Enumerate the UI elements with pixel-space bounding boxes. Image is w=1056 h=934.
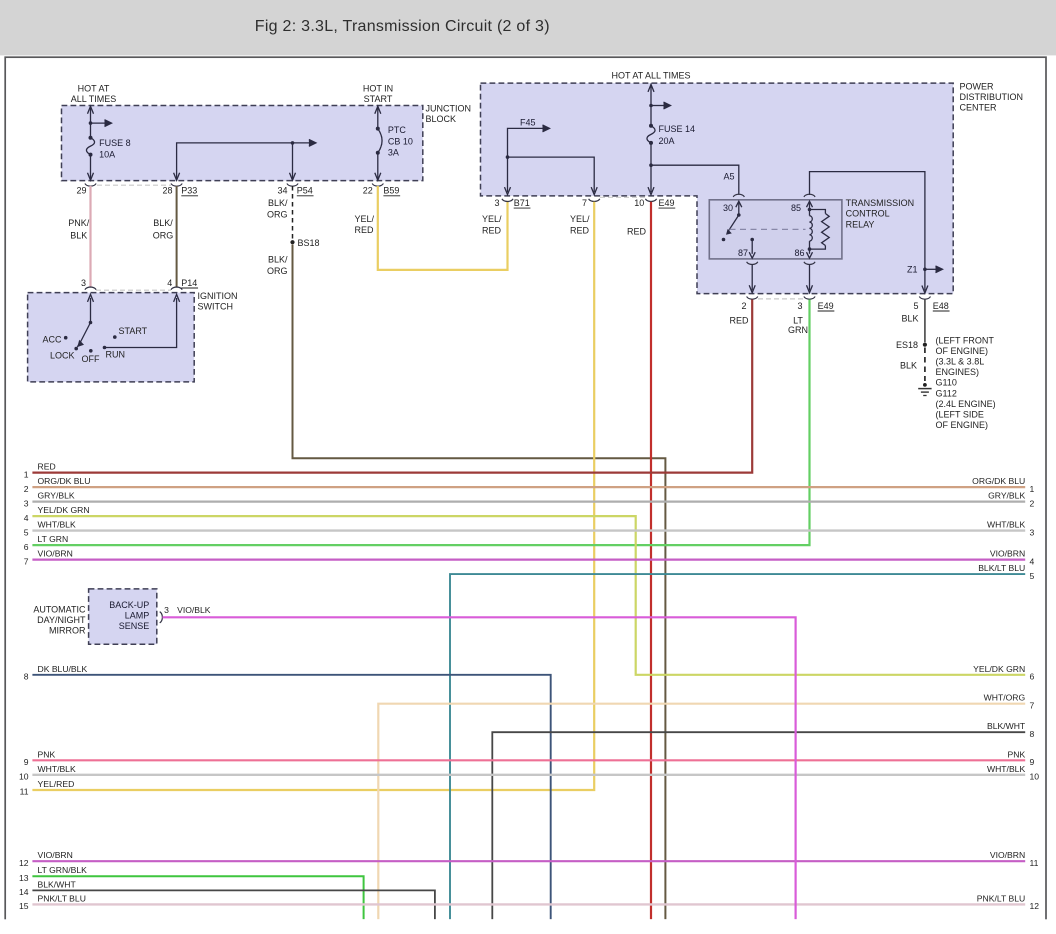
connector 3 (ignition) <box>85 287 96 290</box>
wire RED pin10 down <box>650 202 652 920</box>
svg-text:START: START <box>119 326 148 336</box>
bottom clip mask <box>0 919 1056 934</box>
svg-text:WHT/ORG: WHT/ORG <box>984 693 1026 703</box>
svg-text:28: 28 <box>162 186 172 196</box>
svg-text:YEL/DK GRN: YEL/DK GRN <box>38 505 90 515</box>
svg-text:(LEFT SIDE: (LEFT SIDE <box>936 409 984 419</box>
svg-text:29: 29 <box>76 186 86 196</box>
wire BLK connector5 to splice ES18 <box>924 300 926 343</box>
contact START dot <box>113 335 117 339</box>
wire RUN to terminal 4 <box>105 298 177 348</box>
wire BLK/ORG dashed P54 to splice BS18 <box>292 186 294 240</box>
ignition switch lever <box>80 323 90 343</box>
wire DK BLU/BLK (left 8) <box>32 675 550 920</box>
svg-text:Z1: Z1 <box>907 264 918 274</box>
svg-text:RED: RED <box>729 316 749 326</box>
wire BLK dashed to ground <box>924 348 926 382</box>
fuse F14 feed <box>650 84 652 125</box>
svg-text:RED: RED <box>355 225 375 235</box>
svg-text:3: 3 <box>24 498 29 508</box>
connector 3 (back-up lamp sense) <box>160 612 163 623</box>
relay pin86 wire <box>809 249 811 254</box>
wire RED connector2 to row1 <box>32 300 752 473</box>
connector 34 P54 <box>287 184 298 187</box>
ground G110/G112 <box>923 383 927 387</box>
svg-text:E48: E48 <box>933 301 949 311</box>
svg-text:8: 8 <box>1030 729 1035 739</box>
svg-text:2: 2 <box>1030 498 1035 508</box>
splice ES18 <box>923 343 927 347</box>
relay coil bottom node <box>808 247 812 251</box>
svg-text:3: 3 <box>164 605 169 615</box>
hidden edge dashes <box>97 184 171 186</box>
wire VIO/BLK to bottom <box>162 617 795 919</box>
fuse F8 (FUSE 8 10A) <box>86 138 94 155</box>
svg-text:2: 2 <box>24 484 29 494</box>
wire YEL/DK GRN (left 4 to right 6) <box>32 516 1025 675</box>
svg-text:VIO/BRN: VIO/BRN <box>38 850 73 860</box>
svg-text:ES18: ES18 <box>896 340 918 350</box>
wire BLK/LT BLU (right 5) <box>450 574 1025 919</box>
svg-text:AUTOMATIC: AUTOMATIC <box>33 604 86 614</box>
svg-text:3: 3 <box>797 301 802 311</box>
node fuse14 top branch <box>649 104 653 108</box>
wire LT GRN connector3 to row6 <box>32 300 809 546</box>
wire WHT/ORG (right 7) <box>378 704 1025 920</box>
contact LOCK dot <box>74 347 78 351</box>
svg-text:IGNITION: IGNITION <box>198 291 238 301</box>
svg-text:A5: A5 <box>723 172 734 182</box>
svg-text:12: 12 <box>19 858 29 868</box>
svg-text:FUSE 14: FUSE 14 <box>659 124 696 134</box>
svg-text:15: 15 <box>19 901 29 911</box>
connector 7 <box>589 199 600 202</box>
circuit breaker PTC CB10 feed <box>377 106 379 128</box>
connector 4 P14 <box>171 287 182 290</box>
svg-text:10: 10 <box>1030 772 1040 782</box>
svg-text:11: 11 <box>20 787 29 797</box>
svg-text:5: 5 <box>913 301 918 311</box>
svg-text:YEL/DK GRN: YEL/DK GRN <box>973 664 1025 674</box>
svg-text:BLK: BLK <box>900 360 917 370</box>
svg-text:P33: P33 <box>181 186 197 196</box>
svg-text:10: 10 <box>19 772 29 782</box>
svg-text:BLK/: BLK/ <box>153 218 173 228</box>
relay coil pin85 stem <box>809 203 811 216</box>
contact ACC dot <box>64 336 68 340</box>
svg-text:1: 1 <box>1030 484 1035 494</box>
svg-text:VIO/BRN: VIO/BRN <box>990 549 1025 559</box>
svg-text:(LEFT FRONT: (LEFT FRONT <box>936 336 995 346</box>
svg-text:9: 9 <box>24 757 29 767</box>
svg-text:E49: E49 <box>659 198 675 208</box>
svg-text:P54: P54 <box>297 186 313 196</box>
svg-text:GRY/BLK: GRY/BLK <box>38 491 75 501</box>
wire WHT/BLK (left 10) <box>32 774 1025 776</box>
svg-text:FUSE 8: FUSE 8 <box>99 138 131 148</box>
relay resistor (parallel) <box>810 210 826 214</box>
junction block box <box>62 106 423 181</box>
svg-text:PNK: PNK <box>38 749 56 759</box>
svg-text:ORG: ORG <box>153 231 174 241</box>
svg-text:CB 10: CB 10 <box>388 136 413 146</box>
connector relay pin30 <box>733 194 744 197</box>
svg-text:4: 4 <box>24 513 29 523</box>
svg-text:PNK/LT BLU: PNK/LT BLU <box>977 893 1025 903</box>
wire fuse8 to terminal 29 <box>90 155 92 180</box>
svg-text:7: 7 <box>1030 700 1035 710</box>
svg-text:HOT IN: HOT IN <box>363 84 393 94</box>
svg-text:BLK/WHT: BLK/WHT <box>38 879 77 889</box>
svg-text:BS18: BS18 <box>298 238 320 248</box>
svg-text:10A: 10A <box>99 149 115 159</box>
connector 28 P33 <box>171 184 182 187</box>
svg-text:HOT AT ALL TIMES: HOT AT ALL TIMES <box>611 71 690 81</box>
svg-text:DAY/NIGHT: DAY/NIGHT <box>37 615 86 625</box>
svg-text:BLK: BLK <box>901 313 918 323</box>
svg-text:2: 2 <box>741 301 746 311</box>
svg-text:ORG: ORG <box>267 210 288 220</box>
relay switch lever <box>729 215 739 231</box>
back-up lamp sense box <box>89 589 157 644</box>
svg-text:SWITCH: SWITCH <box>198 301 234 311</box>
node Z1 <box>923 268 927 272</box>
svg-text:(2.4L ENGINE): (2.4L ENGINE) <box>936 399 996 409</box>
svg-text:RED: RED <box>570 226 590 236</box>
svg-text:7: 7 <box>582 198 587 208</box>
svg-text:ALL TIMES: ALL TIMES <box>71 94 117 104</box>
svg-text:CONTROL: CONTROL <box>846 209 890 219</box>
hidden edge dashes under PDC <box>758 298 804 300</box>
connector 2 (PDC bottom) <box>747 297 758 300</box>
svg-text:3: 3 <box>1030 527 1035 537</box>
relay pin30 stem <box>738 203 740 216</box>
svg-text:RELAY: RELAY <box>846 219 875 229</box>
wire VIO/BRN (left 12) <box>32 860 1025 862</box>
svg-text:WHT/BLK: WHT/BLK <box>987 520 1025 530</box>
svg-text:3A: 3A <box>388 147 399 157</box>
svg-text:12: 12 <box>1030 901 1040 911</box>
svg-text:MIRROR: MIRROR <box>49 626 86 636</box>
svg-text:B59: B59 <box>383 186 399 196</box>
connector 29 <box>85 184 96 187</box>
svg-text:85: 85 <box>791 203 801 213</box>
svg-text:START: START <box>364 94 393 104</box>
wire PNK/LT BLU (left 15) <box>32 903 1025 905</box>
svg-text:ORG: ORG <box>267 266 288 276</box>
hidden edge dashes (ignition) <box>96 289 171 291</box>
wire relay pin85 to Z1 <box>810 172 925 291</box>
svg-text:BLK/: BLK/ <box>268 198 288 208</box>
svg-text:11: 11 <box>1030 858 1039 868</box>
wire CB10 to terminal 22 <box>377 153 379 180</box>
wire GRY/BLK (left 3) <box>32 501 1025 503</box>
svg-text:RUN: RUN <box>106 350 126 360</box>
svg-text:5: 5 <box>1030 571 1035 581</box>
svg-text:ENGINES): ENGINES) <box>936 367 980 377</box>
svg-text:P14: P14 <box>181 278 197 288</box>
node A5 branch <box>649 163 653 167</box>
svg-text:BLOCK: BLOCK <box>426 114 457 124</box>
fuse F8 feed wire <box>90 106 92 137</box>
relay actuator dashed link <box>730 228 806 230</box>
relay pin87 wire <box>750 238 754 242</box>
contact OFF dot <box>89 349 93 353</box>
wire junction-block internal branch <box>177 143 312 180</box>
svg-text:POWER: POWER <box>960 81 995 91</box>
wire ORG/DK BLU (left 2) <box>32 486 1025 488</box>
wire YEL/RED B59 to B71 <box>378 186 508 270</box>
wire BLK/ORG terminal28 to ignition 4 <box>176 186 178 287</box>
svg-text:3: 3 <box>81 278 86 288</box>
svg-text:GRN: GRN <box>788 325 808 335</box>
svg-text:Fig 2: 3.3L, Transmission Circ: Fig 2: 3.3L, Transmission Circuit (2 of … <box>255 18 550 35</box>
svg-text:9: 9 <box>1030 757 1035 767</box>
svg-text:G110: G110 <box>936 378 957 388</box>
svg-text:OFF: OFF <box>82 354 100 364</box>
svg-text:DK BLU/BLK: DK BLU/BLK <box>38 664 88 674</box>
splice BS18 <box>290 240 294 244</box>
svg-text:7: 7 <box>24 556 29 566</box>
wire fuse14 to pin 10 <box>650 143 652 192</box>
svg-text:4: 4 <box>1030 556 1035 566</box>
svg-text:VIO/BRN: VIO/BRN <box>38 549 73 559</box>
svg-text:LT GRN/BLK: LT GRN/BLK <box>38 865 88 875</box>
wire VIO/BRN (left 7) <box>32 558 1025 560</box>
svg-text:CENTER: CENTER <box>960 103 998 113</box>
connector 3 B71 <box>502 199 513 202</box>
svg-text:F45: F45 <box>520 118 536 128</box>
svg-text:YEL/: YEL/ <box>355 214 375 224</box>
wire BLK/WHT (left 14) <box>32 890 435 919</box>
connector 3 E49 (PDC bottom) <box>804 297 815 300</box>
svg-text:6: 6 <box>1030 672 1035 682</box>
svg-text:10: 10 <box>634 198 644 208</box>
svg-text:5: 5 <box>24 527 29 537</box>
wire to relay pin 30 (A5) <box>651 165 739 195</box>
connector 10 E49 <box>645 199 656 202</box>
wire F45 to pin 7 <box>508 157 595 192</box>
svg-text:WHT/BLK: WHT/BLK <box>987 764 1025 774</box>
svg-text:20A: 20A <box>659 136 675 146</box>
relay contact 87 dot <box>722 238 726 242</box>
svg-text:WHT/BLK: WHT/BLK <box>38 764 76 774</box>
svg-text:SENSE: SENSE <box>119 621 150 631</box>
svg-text:BLK/: BLK/ <box>268 255 288 265</box>
wire BLK/ORG splice BS18 down and right <box>293 245 666 920</box>
title bar <box>0 0 1056 55</box>
svg-text:B71: B71 <box>514 198 530 208</box>
connector relay pin87 bottom <box>747 262 758 265</box>
svg-text:22: 22 <box>363 186 373 196</box>
svg-text:VIO/BRN: VIO/BRN <box>990 850 1025 860</box>
svg-text:OF ENGINE): OF ENGINE) <box>936 346 989 356</box>
ignition switch box <box>28 293 195 382</box>
circuit breaker PTC CB 10 3A <box>378 129 382 153</box>
svg-text:RED: RED <box>482 226 502 236</box>
svg-text:30: 30 <box>723 203 733 213</box>
fuse F14 (FUSE 14 20A) <box>647 126 655 143</box>
svg-text:PNK/: PNK/ <box>68 218 90 228</box>
relay coil (inductor) <box>810 216 813 241</box>
svg-text:6: 6 <box>24 542 29 552</box>
wire BLK/WHT (right 8) <box>492 732 1025 919</box>
svg-text:1: 1 <box>24 469 29 479</box>
svg-text:PNK/LT BLU: PNK/LT BLU <box>38 893 86 903</box>
svg-text:14: 14 <box>19 887 29 897</box>
svg-text:WHT/BLK: WHT/BLK <box>38 520 76 530</box>
node fuse8 branch <box>89 121 93 125</box>
connector relay pin86 bottom <box>804 262 815 265</box>
ignition switch wiper to terminal 3 <box>90 298 92 323</box>
svg-text:(3.3L & 3.8L: (3.3L & 3.8L <box>936 357 985 367</box>
svg-text:BACK-UP: BACK-UP <box>109 600 149 610</box>
svg-text:4: 4 <box>167 278 172 288</box>
svg-text:VIO/BLK: VIO/BLK <box>177 605 211 615</box>
svg-text:RED: RED <box>38 462 56 472</box>
svg-text:8: 8 <box>24 672 29 682</box>
svg-text:YEL/: YEL/ <box>570 214 590 224</box>
svg-text:13: 13 <box>19 873 29 883</box>
svg-text:3: 3 <box>494 198 499 208</box>
svg-text:BLK: BLK <box>70 231 87 241</box>
wire PNK/BLK terminal29 to ignition 3 <box>89 186 91 287</box>
power distribution center box <box>481 83 954 294</box>
svg-text:ACC: ACC <box>42 335 62 345</box>
connector relay pin85 <box>804 194 815 197</box>
svg-text:HOT AT: HOT AT <box>78 84 110 94</box>
svg-text:RED: RED <box>627 227 647 237</box>
wire YEL/RED pin7 down to row11 <box>32 202 594 790</box>
wire WHT/BLK (left 5) <box>32 529 1025 531</box>
hidden edge dashes (PDC pins) <box>600 196 645 198</box>
svg-text:LAMP: LAMP <box>125 610 150 620</box>
svg-text:86: 86 <box>794 248 804 258</box>
svg-text:E49: E49 <box>818 301 834 311</box>
svg-text:PNK: PNK <box>1008 749 1026 759</box>
wire LT GRN/BLK (left 13) <box>32 876 363 919</box>
relay box (transmission control relay) <box>709 200 842 259</box>
svg-text:YEL/: YEL/ <box>482 214 502 224</box>
svg-text:DISTRIBUTION: DISTRIBUTION <box>960 92 1024 102</box>
contact RUN dot <box>103 346 107 350</box>
svg-text:ORG/DK BLU: ORG/DK BLU <box>972 476 1025 486</box>
svg-text:87: 87 <box>738 248 748 258</box>
svg-text:TRANSMISSION: TRANSMISSION <box>846 198 915 208</box>
svg-text:YEL/RED: YEL/RED <box>38 779 75 789</box>
svg-text:LT GRN: LT GRN <box>38 534 69 544</box>
svg-text:LOCK: LOCK <box>50 351 75 361</box>
svg-text:JUNCTION: JUNCTION <box>426 104 472 114</box>
node P54 branch <box>291 141 295 145</box>
relay switch pivot <box>737 213 741 217</box>
ignition switch pivot <box>89 321 93 325</box>
svg-text:PTC: PTC <box>388 125 407 135</box>
svg-text:G112: G112 <box>936 388 957 398</box>
connector 22 B59 <box>372 184 383 187</box>
connector 5 E48 (PDC bottom) <box>919 297 930 300</box>
wire PNK (left 9) <box>32 759 1025 761</box>
svg-text:OF ENGINE): OF ENGINE) <box>936 420 989 430</box>
svg-text:BLK/LT BLU: BLK/LT BLU <box>978 563 1025 573</box>
node F45 split <box>506 155 510 159</box>
svg-text:ORG/DK BLU: ORG/DK BLU <box>38 476 91 486</box>
svg-text:GRY/BLK: GRY/BLK <box>988 491 1025 501</box>
svg-text:34: 34 <box>277 186 287 196</box>
svg-text:BLK/WHT: BLK/WHT <box>987 721 1026 731</box>
